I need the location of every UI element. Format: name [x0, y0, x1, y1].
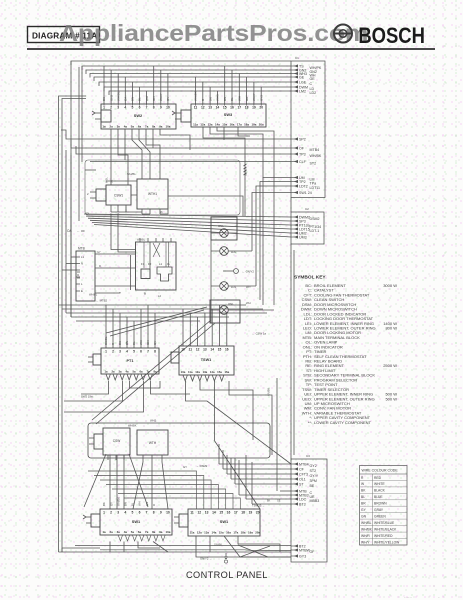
svg-text:OA: OA: [67, 229, 72, 233]
svg-text:11: 11: [190, 511, 194, 515]
svg-text:BN: BN: [125, 341, 129, 345]
svg-text:WH/BK: WH/BK: [116, 497, 120, 506]
svg-text:19: 19: [252, 106, 256, 110]
wire labels above SW2: [102, 91, 170, 101]
svg-text:WH/Y: WH/Y: [159, 93, 163, 101]
svg-text:15a: 15a: [222, 123, 227, 127]
relay board RB: [131, 238, 177, 296]
wire labels upper cavity: [86, 172, 136, 216]
svg-text:WH/BK: WH/BK: [194, 91, 198, 101]
svg-text:7: 7: [147, 350, 149, 354]
symbol key text block: [294, 275, 397, 425]
upper cavity group boundary: [85, 160, 240, 215]
svg-text:6: 6: [139, 106, 141, 110]
svg-text:MTB: MTB: [78, 247, 85, 251]
svg-text:UM3: UM3: [299, 236, 307, 240]
svg-text:7: 7: [146, 511, 148, 515]
svg-text:GE: GE: [245, 97, 249, 101]
svg-text:20a: 20a: [255, 531, 260, 535]
wire bundle MTB area to TIM columns: [59, 305, 268, 321]
contacts below SW1 left: [118, 535, 165, 541]
svg-text:ST: ST: [299, 483, 304, 487]
svg-text:15a: 15a: [219, 531, 224, 535]
svg-text:WH2: WH2: [150, 419, 157, 423]
label CSW 1a: [252, 332, 266, 336]
svg-text:9: 9: [160, 511, 162, 515]
svg-text:7a: 7a: [145, 530, 149, 534]
svg-text:R: R: [152, 504, 156, 506]
svg-text:GN/Y2 →: GN/Y2 →: [200, 557, 212, 561]
svg-text:5: 5: [131, 511, 133, 515]
svg-text:2b: 2b: [160, 211, 163, 214]
page footer marks: [404, 595, 440, 599]
svg-text:10a: 10a: [165, 530, 170, 534]
svg-text:← OF: ← OF: [77, 229, 85, 233]
svg-text:GREEN: GREEN: [374, 515, 386, 519]
svg-text:SYMBOL KEY: SYMBOL KEY: [294, 275, 326, 281]
svg-text:WHITE/RED: WHITE/RED: [374, 534, 393, 538]
terminal rows C1 lower: [291, 176, 320, 195]
svg-text:16a: 16a: [230, 123, 235, 127]
svg-text:3: 3: [119, 350, 121, 354]
svg-text:LDT2: LDT2: [299, 185, 308, 189]
wires below TSW1: [186, 378, 278, 491]
svg-text:20a: 20a: [259, 123, 264, 127]
svg-text:W/BL: W/BL: [106, 176, 109, 183]
svg-text:WTH1: WTH1: [148, 192, 157, 196]
svg-text:BK: BK: [361, 489, 366, 493]
svg-text:16a: 16a: [224, 370, 229, 374]
svg-text:GY: GY: [166, 97, 170, 101]
svg-text:LGE: LGE: [299, 81, 307, 85]
svg-text:SW1 24: SW1 24: [299, 191, 312, 195]
svg-text:18a: 18a: [244, 123, 249, 127]
labels lower cavity: [128, 419, 208, 470]
wire left bus x62: [62, 99, 86, 553]
svg-text:WH/BK: WH/BK: [310, 154, 322, 158]
svg-text:BL: BL: [230, 97, 234, 101]
watermark AppliancePartsPros.com: [59, 20, 368, 46]
wires below PT1: [64, 381, 190, 412]
svg-text:13: 13: [208, 106, 212, 110]
svg-text:13a: 13a: [203, 370, 208, 374]
svg-text:WTH: WTH: [149, 441, 157, 445]
svg-text:BN: BN: [131, 97, 135, 101]
wire left bus x79: [78, 67, 80, 221]
svg-text:WH/BL: WH/BL: [137, 238, 146, 242]
wire y148 to OF: [71, 140, 291, 148]
terminal rows C1 top: [291, 64, 322, 94]
svg-text:11: 11: [189, 348, 193, 352]
svg-text:11a: 11a: [190, 531, 195, 535]
lamp LOL: [211, 282, 256, 291]
svg-text:6: 6: [139, 511, 141, 515]
svg-text:WHITE/BLUE: WHITE/BLUE: [374, 521, 395, 525]
svg-text:SW1: SW1: [220, 519, 229, 524]
svg-text:12: 12: [201, 106, 205, 110]
svg-text:BLACK: BLACK: [374, 489, 386, 493]
wires below SW3: [203, 127, 274, 178]
wires inside upper cavity group: [85, 170, 168, 214]
catalyst wire with label: [244, 157, 248, 216]
svg-text:GE: GE: [299, 76, 305, 80]
svg-text:9: 9: [160, 106, 162, 110]
svg-text:BOSCH: BOSCH: [358, 23, 425, 48]
svg-text:WH/BK: WH/BK: [128, 424, 137, 428]
svg-text:6a: 6a: [139, 370, 143, 374]
connector C1 box: [291, 56, 325, 198]
svg-text:2500 W: 2500 W: [383, 363, 397, 368]
BOSCH wordmark: [358, 23, 425, 48]
wire y139 to SP2: [61, 130, 291, 139]
svg-text:8a: 8a: [152, 530, 156, 534]
svg-text:BL: BL: [138, 97, 142, 101]
svg-text:CF: CF: [299, 468, 305, 472]
svg-text:ST2: ST2: [310, 161, 317, 165]
wire staircase bundle to connector C3: [219, 444, 291, 504]
svg-text:12: 12: [196, 348, 200, 352]
svg-text:TPa: TPa: [310, 181, 317, 185]
header rule: [27, 48, 435, 50]
svg-text:W: W: [361, 482, 365, 486]
svg-text:7: 7: [146, 106, 148, 110]
svg-text:GY: GY: [153, 341, 157, 345]
svg-text:OF: OF: [299, 147, 305, 151]
svg-text:10: 10: [166, 511, 170, 515]
svg-text:8: 8: [153, 106, 155, 110]
svg-text:16: 16: [230, 106, 234, 110]
svg-text:R: R: [361, 476, 364, 480]
timer PT1: [88, 348, 159, 374]
svg-text:CA: CA: [124, 97, 128, 101]
svg-text:4a: 4a: [125, 370, 129, 374]
svg-text:17: 17: [234, 511, 238, 515]
svg-text:5a: 5a: [131, 530, 135, 534]
svg-text:CSW1: CSW1: [114, 194, 123, 198]
svg-text:14: 14: [212, 511, 216, 515]
svg-text:WHITE/YELLOW: WHITE/YELLOW: [374, 540, 400, 544]
test point TP: [223, 269, 254, 274]
svg-text:–: –: [438, 595, 440, 599]
svg-text:16: 16: [227, 511, 231, 515]
svg-text:8: 8: [153, 511, 155, 515]
svg-text:**:: **:: [308, 420, 312, 425]
Bosch logo symbol: [334, 25, 352, 43]
svg-text:WH/Y: WH/Y: [252, 93, 256, 101]
svg-text:19a: 19a: [248, 531, 253, 535]
svg-text:WHITE: WHITE: [374, 482, 385, 486]
svg-text:20: 20: [259, 106, 263, 110]
svg-text:MTB4: MTB4: [299, 463, 309, 467]
svg-text:5: 5: [133, 350, 135, 354]
svg-text:WH/BL: WH/BL: [361, 521, 372, 525]
svg-text:7a: 7a: [146, 370, 150, 374]
svg-text:BN: BN: [124, 502, 128, 506]
terminal rows C2: [291, 215, 321, 239]
svg-text:6: 6: [140, 350, 142, 354]
svg-text:C2: C2: [305, 207, 309, 211]
svg-text:3a: 3a: [117, 125, 121, 129]
svg-text:13a: 13a: [208, 123, 213, 127]
lamp LDL: [211, 247, 252, 256]
svg-text:12a: 12a: [195, 370, 200, 374]
svg-text:14: 14: [210, 348, 214, 352]
svg-text:14: 14: [216, 106, 220, 110]
svg-text:CONTROL PANEL: CONTROL PANEL: [186, 570, 268, 580]
svg-text:GY: GY: [109, 502, 113, 506]
svg-text:10a: 10a: [181, 370, 186, 374]
thermostat WTH2: [137, 430, 168, 462]
svg-text:BR: BR: [361, 502, 366, 506]
wire labels above PT1: [104, 336, 157, 345]
svg-text:MBB3: MBB3: [310, 499, 320, 503]
svg-text:3: 3: [117, 106, 119, 110]
svg-text:11a: 11a: [188, 370, 193, 374]
svg-text:20: 20: [256, 511, 260, 515]
diagonal TSW to connector: [207, 401, 291, 509]
switch SW1 right half: [174, 509, 261, 536]
svg-text:L1: L1: [159, 262, 163, 266]
node OA: [67, 229, 85, 233]
svg-text:TP2: TP2: [299, 180, 306, 184]
svg-text:OL1: OL1: [299, 478, 306, 482]
svg-text:1a: 1a: [104, 370, 108, 374]
svg-text:← GN/Y2: ← GN/Y2: [242, 270, 254, 274]
svg-text:4a: 4a: [124, 530, 128, 534]
svg-text:C3: C3: [306, 454, 310, 458]
wire left bus x58: [59, 96, 87, 552]
timer selector TSW1: [166, 346, 234, 375]
svg-text:R: R: [99, 264, 101, 268]
svg-text:WH/R: WH/R: [361, 534, 370, 538]
svg-text:1: 1: [103, 511, 105, 515]
wire bundle to connector rows UM TP2 LDT2 SW1: [252, 178, 291, 306]
svg-text:2a: 2a: [111, 370, 115, 374]
svg-text:13a: 13a: [204, 531, 209, 535]
svg-text:SW1: SW1: [132, 519, 141, 524]
wire drops to SW2 pins: [104, 66, 168, 104]
terminal rows C3: [291, 462, 319, 506]
svg-text:13: 13: [203, 348, 207, 352]
svg-text:E: E: [81, 289, 83, 293]
svg-text:RED: RED: [374, 476, 382, 480]
svg-text:6a: 6a: [138, 125, 142, 129]
svg-text:19a: 19a: [251, 123, 256, 127]
svg-text:9a: 9a: [159, 125, 163, 129]
svg-text:11a: 11a: [193, 123, 198, 127]
svg-text:5a: 5a: [131, 125, 135, 129]
svg-text:WHITE/BLACK: WHITE/BLACK: [374, 527, 397, 531]
svg-text:GY/Y: GY/Y: [310, 474, 319, 478]
svg-text:SP2: SP2: [299, 138, 306, 142]
svg-text:SW2 19a: SW2 19a: [81, 395, 93, 399]
svg-text:8: 8: [154, 350, 156, 354]
wire y161 to CLF: [90, 161, 291, 163]
svg-text:10: 10: [166, 106, 170, 110]
svg-text:TP3: TP3: [299, 153, 306, 157]
svg-text:BK: BK: [102, 502, 106, 506]
svg-text:17a: 17a: [233, 531, 238, 535]
svg-text:GY3: GY3: [299, 555, 306, 559]
svg-text:GN/BK: GN/BK: [267, 388, 271, 396]
svg-text:WH/BK: WH/BK: [361, 527, 373, 531]
svg-text:SW3: SW3: [224, 112, 233, 117]
svg-text:2: 2: [110, 511, 112, 515]
svg-text:WH/Y: WH/Y: [361, 540, 370, 544]
svg-text:GRAY: GRAY: [374, 508, 384, 512]
svg-text:← MTB2: ← MTB2: [96, 299, 107, 303]
contacts below PT1: [106, 374, 152, 380]
svg-text:ONL: ONL: [218, 224, 224, 228]
svg-text:12: 12: [197, 511, 201, 515]
svg-text:12a: 12a: [197, 531, 202, 535]
svg-text:BN: BN: [223, 97, 227, 101]
svg-text:GY: GY: [97, 250, 101, 254]
svg-text:WH: WH: [138, 501, 142, 506]
svg-text:BK: BK: [267, 500, 271, 503]
label SW2 19a: [81, 395, 93, 399]
svg-text:4: 4: [124, 511, 126, 515]
connector C2 box: [291, 207, 324, 244]
svg-text:L2: L2: [158, 294, 161, 298]
wire colour code table: [360, 466, 408, 546]
svg-text:CLF: CLF: [299, 160, 307, 164]
svg-text:2: 2: [87, 192, 89, 196]
svg-text:TSW1: TSW1: [201, 358, 212, 362]
clean switch CSW2: [89, 428, 130, 460]
svg-text:17a: 17a: [237, 123, 242, 127]
svg-text:OF: OF: [310, 550, 316, 554]
svg-text:MTB4: MTB4: [310, 148, 320, 152]
svg-text:GY: GY: [361, 508, 367, 512]
svg-text:17: 17: [237, 106, 241, 110]
wire labels above SW3: [194, 91, 264, 101]
svg-text:ST2: ST2: [310, 469, 317, 473]
svg-text:6a: 6a: [138, 530, 142, 534]
svg-text:5: 5: [131, 106, 133, 110]
svg-text:1: 1: [103, 106, 105, 110]
svg-text:WH: WH: [238, 96, 242, 101]
svg-text:GN/BK: GN/BK: [214, 543, 222, 547]
terminal rows C1 middle: [291, 137, 322, 165]
top wire bus to connector C1: [71, 61, 291, 95]
lamp ONL2 with box: [210, 300, 274, 323]
svg-text:← CSW 1a: ← CSW 1a: [252, 332, 266, 336]
svg-text:19: 19: [249, 511, 253, 515]
wire drops to SW3 pins: [196, 66, 262, 104]
svg-text:GN: GN: [152, 97, 156, 102]
svg-text:5a: 5a: [132, 370, 136, 374]
svg-text:GY2: GY2: [310, 464, 317, 468]
svg-text:10a: 10a: [165, 125, 170, 129]
svg-text:1a: 1a: [102, 125, 106, 129]
labels near BT3: [252, 500, 281, 508]
svg-text:13: 13: [205, 511, 209, 515]
svg-text:14a: 14a: [210, 370, 215, 374]
svg-text:1: 1: [105, 350, 107, 354]
svg-text:2: 2: [110, 106, 112, 110]
svg-text:GN2: GN2: [109, 95, 113, 102]
svg-text:LD2: LD2: [310, 91, 317, 95]
svg-text:N: N: [81, 262, 83, 266]
terminal rows C3 bottom: [291, 544, 315, 558]
svg-text:WH/BL: WH/BL: [116, 91, 120, 101]
svg-text:– –– –: – –– –: [404, 595, 412, 599]
lamp column common wire: [210, 217, 212, 323]
svg-text:BL: BL: [361, 495, 365, 499]
svg-text:BLUE: BLUE: [374, 495, 383, 499]
wire x66 down: [65, 150, 67, 313]
svg-text:15a: 15a: [217, 370, 222, 374]
svg-text:2a: 2a: [109, 125, 113, 129]
terminal block MTB: [76, 247, 95, 302]
svg-text:16a: 16a: [226, 531, 231, 535]
svg-text:TSW 13 →: TSW 13 →: [252, 504, 265, 508]
svg-text:WH3: WH3: [216, 94, 220, 101]
svg-text:800 W: 800 W: [385, 326, 397, 331]
svg-text:WH: WH: [139, 340, 143, 345]
svg-text:14a: 14a: [211, 531, 216, 535]
svg-text:C1: C1: [295, 56, 299, 60]
svg-text:CSW: CSW: [113, 439, 120, 443]
svg-text:18a: 18a: [241, 531, 246, 535]
svg-text:14a: 14a: [215, 123, 220, 127]
svg-text:LDT-1: LDT-1: [310, 229, 320, 233]
svg-text:3a: 3a: [118, 370, 122, 374]
diagonal wires lamp area to lower group: [92, 307, 215, 424]
svg-text:18: 18: [241, 511, 245, 515]
svg-text:OL: OL: [86, 212, 90, 216]
labels below RB: [89, 293, 161, 303]
svg-text:LM2: LM2: [299, 90, 306, 94]
svg-text:WH/BL: WH/BL: [89, 293, 98, 297]
lower cavity group boundary: [88, 423, 270, 458]
svg-text:11: 11: [194, 106, 198, 110]
svg-text:PT1: PT1: [127, 359, 134, 363]
control panel caption: [186, 570, 268, 580]
svg-text:500 W: 500 W: [385, 396, 397, 401]
svg-text:15: 15: [218, 348, 222, 352]
svg-text:2a: 2a: [109, 530, 113, 534]
thermostat WTH1: [137, 179, 168, 214]
wire feeders to connector C2: [84, 214, 291, 237]
svg-text:18: 18: [245, 106, 249, 110]
wire staircase to SW1B pins: [88, 471, 240, 509]
svg-text:15: 15: [219, 511, 223, 515]
svg-text:WH: WH: [246, 301, 251, 305]
svg-text:GN: GN: [145, 502, 149, 506]
wire x71 down: [70, 155, 72, 317]
wire x274 down: [273, 154, 275, 305]
svg-text:BROWN: BROWN: [374, 502, 387, 506]
svg-text:9a: 9a: [159, 530, 163, 534]
svg-text:BL: BL: [131, 502, 135, 506]
svg-text:WH/BL: WH/BL: [127, 172, 136, 176]
svg-text:BE: BE: [310, 484, 315, 488]
label WH mid: [246, 301, 251, 305]
svg-text:DSM2: DSM2: [310, 217, 320, 221]
svg-text:10: 10: [181, 348, 185, 352]
wire left bus x82: [81, 66, 83, 162]
svg-text:12a: 12a: [200, 123, 205, 127]
svg-text:8a: 8a: [152, 125, 156, 129]
svg-text:AppliancePartsPros.com: AppliancePartsPros.com: [59, 20, 368, 46]
svg-text:1a: 1a: [102, 530, 106, 534]
header block: [27, 20, 435, 49]
switch SW2: [92, 104, 176, 129]
svg-text:2: 2: [112, 350, 114, 354]
connector C3 box: [291, 454, 327, 562]
